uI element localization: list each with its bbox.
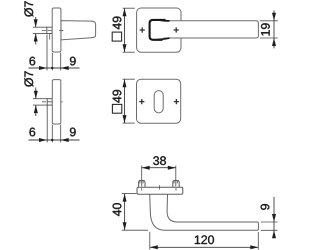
node: screw mark + left B — [140, 27, 145, 32]
label 9 E — [261, 204, 270, 210]
arrow 6 C — [39, 138, 47, 142]
wire: ext line bottom of Ø7 A — [33, 33, 47, 35]
label 49 B — [113, 17, 122, 30]
wire: ext line 120 right — [257, 232, 259, 250]
label square symbol B — [112, 32, 121, 41]
arrow 40 top — [123, 194, 127, 202]
arrow 120 right — [250, 245, 258, 249]
wire: ext line bottom □49 D — [123, 122, 135, 124]
dimension Ø7 A line — [35, 17, 37, 45]
arrow 6 A (points right at x47) — [39, 66, 47, 70]
screw post right E — [173, 181, 179, 188]
wire: ext line 38 left — [141, 166, 143, 187]
spindle square A — [47, 27, 52, 33]
label 6 C — [30, 128, 36, 137]
handle top view: neck and grip bar E — [150, 195, 259, 231]
node dot between 6 and 9 C — [51, 139, 53, 141]
wire: ext line top □49 D — [123, 78, 135, 80]
wire: ext line x47 down A — [46, 35, 48, 71]
neck B (dark outline) — [150, 20, 166, 40]
spindle square C — [47, 99, 52, 105]
wire: ext line top of Ø7 A — [33, 26, 47, 28]
label Ø7 A — [24, 1, 33, 16]
dimension line 40 — [124, 194, 126, 231]
wire: ext line x60.7 down C — [60, 125, 62, 143]
label 40 — [113, 203, 122, 216]
node: screw mark + left D — [139, 99, 144, 104]
wire: ext line bottom of 19 B — [260, 37, 278, 39]
node dot between 6 and 9 A — [51, 67, 53, 69]
dimension line 6/9 C — [29, 139, 80, 141]
wire: ext line top □49 B — [123, 7, 135, 9]
rose B (front view, square) — [137, 8, 181, 52]
dimension Ø7 C line — [35, 88, 37, 117]
wire: ext line top of 19 B — [260, 20, 278, 22]
node: post screw inner lines right E — [174, 181, 177, 184]
arrow 40 bottom — [123, 222, 127, 230]
wire: center dash middle E — [158, 185, 160, 189]
arrow 38 right — [168, 166, 176, 170]
label 9 C — [70, 128, 76, 137]
arrow Ø7 A lower — [34, 34, 38, 42]
wire: ext line x60.7 down A — [60, 53, 62, 71]
keyhole D — [154, 91, 163, 113]
rose D (front view, square) — [137, 79, 181, 123]
dimension line □49 B — [124, 8, 126, 52]
wire: ext line bottom of Ø7 C — [33, 104, 47, 106]
node: screw mark + right D — [174, 99, 179, 104]
label 49 D — [113, 90, 122, 103]
wire: ext line bottom □49 B — [123, 51, 135, 53]
label 38 — [153, 156, 166, 165]
wire: ext line 40 top — [122, 193, 137, 195]
arrow Ø7 C upper — [34, 91, 38, 99]
arrow Ø7 C lower — [34, 105, 38, 113]
arrow Ø7 A upper — [34, 19, 38, 27]
wire: ext line x47 down C — [46, 106, 48, 143]
wire: ext line 9 bottom E — [261, 229, 278, 231]
dimension line 6/9 A — [29, 67, 80, 69]
rose A (side view) — [52, 8, 61, 52]
label 19 B — [261, 23, 270, 35]
arrow □49 D top — [123, 79, 127, 87]
wire: ext line x52.3 down A — [51, 53, 53, 71]
arrow 9 E lower — [272, 230, 276, 238]
dimension line 9 E — [273, 197, 275, 238]
wire: centerline tick across rose edge A — [59, 29, 63, 31]
wire: ext line x52.3 down C — [51, 125, 53, 143]
arrow 9 A (points left at x60.7) — [61, 66, 69, 70]
label Ø7 C — [24, 71, 33, 86]
wire: center dash right post E — [175, 188, 177, 191]
lever grip A — [61, 21, 96, 40]
wire: spindle center dash below square A — [49, 34, 51, 40]
wire: center dash left post E — [141, 188, 143, 191]
wire: ext line 120 left — [149, 232, 151, 250]
dimension line 19 B — [273, 10, 275, 48]
dimension line □49 D — [124, 79, 126, 123]
label square symbol D — [112, 104, 121, 113]
wire: neck-to-bar step bottom B — [157, 38, 170, 40]
wire: ext line 9 top E — [261, 221, 278, 223]
label 120 — [195, 235, 214, 244]
arrow 38 left — [142, 166, 150, 170]
wire: centerline A — [42, 29, 64, 31]
lever bar B (front view) — [164, 21, 259, 38]
arrow □49 B bottom — [123, 44, 127, 52]
rose plate E (edge view) — [137, 187, 183, 194]
wire: centerline C — [42, 101, 63, 103]
arrow 19 B lower — [272, 38, 276, 46]
arrow 120 left — [150, 245, 158, 249]
arrow 9 E upper — [272, 214, 276, 222]
dimension line 120 — [150, 246, 258, 248]
wire: ext line 40 bottom — [122, 229, 148, 231]
label 9 A — [70, 57, 76, 66]
rose C (side view) — [52, 80, 61, 124]
node: post screw inner lines left E — [140, 181, 143, 184]
arrow 9 C — [61, 138, 69, 142]
label 6 A — [30, 57, 36, 66]
wire: ext line 38 right — [175, 166, 177, 187]
wire: ext line top of Ø7 C — [33, 98, 47, 100]
dimension line 38 — [142, 167, 176, 169]
node: screw mark + right B (on bar) — [174, 27, 179, 32]
arrow 19 B upper — [272, 13, 276, 21]
arrow □49 D bottom — [123, 115, 127, 123]
arrow □49 B top — [123, 8, 127, 16]
wire: neck-to-bar step top B — [160, 19, 170, 22]
screw post left E — [139, 181, 145, 188]
